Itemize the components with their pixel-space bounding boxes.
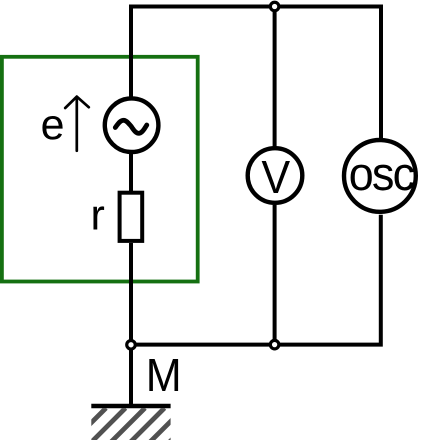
- node: bottom junction: [270, 340, 279, 349]
- label M: [149, 359, 178, 391]
- wire: voltmeter branch top: [273, 7, 277, 148]
- AC source e: [105, 98, 159, 152]
- wire: voltmeter branch bottom: [273, 205, 277, 345]
- resistor r: [120, 193, 143, 241]
- node M: [127, 341, 136, 350]
- wire: resistor down through node M to ground: [129, 243, 133, 407]
- AC source sine symbol: [115, 120, 147, 133]
- label r: [93, 206, 104, 229]
- label e: [42, 116, 62, 140]
- wire: bottom rail and osc branch bottom: [131, 215, 381, 345]
- voltmeter V: [248, 148, 303, 203]
- wire: top rail from source up, across to osc branch: [131, 7, 381, 139]
- arrow (emf direction): [75, 97, 78, 151]
- source box (green): [2, 57, 198, 282]
- oscilloscope: [344, 140, 416, 212]
- ground bar: [91, 404, 170, 408]
- wire: source to resistor: [129, 154, 133, 191]
- node: top junction: [270, 2, 279, 11]
- ground hatching: [72, 408, 204, 440]
